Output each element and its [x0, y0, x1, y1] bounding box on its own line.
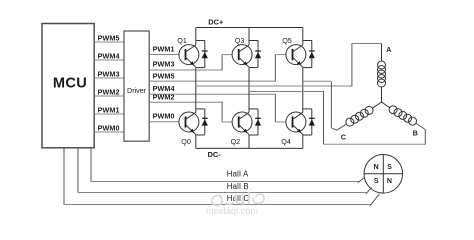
wire PWM4 driver to Q4 base — [149, 84, 286, 122]
svg-text:PWM2: PWM2 — [153, 93, 175, 102]
svg-text:N: N — [387, 178, 392, 185]
svg-text:PWM5: PWM5 — [98, 33, 120, 42]
wire MCU PWM2 to driver — [94, 87, 124, 96]
transistor Q0 — [179, 112, 199, 146]
winding A (phase A coil) — [378, 44, 392, 103]
wire MCU PWM5 to driver — [94, 33, 124, 42]
wire leg 1 phase node vertical (Q1 emitter to Q0 collector) — [195, 68, 197, 113]
svg-text:Driver: Driver — [127, 86, 147, 95]
svg-text:Q4: Q4 — [281, 137, 291, 146]
svg-text:PWM4: PWM4 — [98, 51, 120, 60]
wire leg 3 phase node vertical (Q5 emitter to Q4 collector) — [302, 68, 304, 113]
transistor Q4 — [281, 112, 306, 146]
wire leg 3 collector top (DC+ to Q5) — [302, 28, 304, 46]
svg-text:C: C — [341, 134, 346, 141]
watermark mostaql logo — [212, 189, 264, 206]
wire PWM0 driver to Q0 base — [149, 112, 179, 122]
svg-text:Q5: Q5 — [282, 36, 292, 45]
svg-text:Hall B: Hall B — [227, 182, 249, 191]
winding C (phase C coil) — [341, 102, 382, 141]
svg-text:N: N — [374, 164, 379, 171]
DC- rail — [196, 148, 303, 159]
freewheel diode D3 at Q3 — [249, 41, 261, 68]
svg-text:MCU: MCU — [53, 75, 87, 91]
svg-text:Q3: Q3 — [235, 36, 245, 45]
svg-text:PWM1: PWM1 — [153, 44, 175, 53]
svg-text:PWM5: PWM5 — [153, 72, 175, 81]
freewheel diode D4 at Q4 — [303, 109, 315, 135]
node phase C wire (leg3 to winding C) — [303, 81, 347, 130]
transistor Q2 — [231, 112, 253, 146]
rotor magnet / hall sensor disc — [364, 155, 403, 194]
wire leg 3 emitter bottom (Q4 to DC-) — [302, 135, 304, 148]
svg-text:A: A — [386, 47, 391, 54]
node star point of motor — [381, 101, 383, 103]
wire leg 1 collector top (DC+ to Q1) — [195, 28, 197, 46]
svg-text:PWM3: PWM3 — [153, 60, 175, 69]
wire MCU PWM0 to driver — [94, 123, 124, 132]
svg-text:mostaql.com: mostaql.com — [206, 206, 258, 216]
svg-text:Hall A: Hall A — [227, 170, 249, 179]
svg-text:PWM2: PWM2 — [98, 87, 120, 96]
svg-text:Q2: Q2 — [231, 137, 241, 146]
freewheel diode D0 at Q0 — [196, 109, 208, 135]
wire leg 2 emitter bottom (Q2 to DC-) — [248, 135, 250, 148]
svg-text:S: S — [374, 178, 379, 185]
watermark mostaql.com text — [206, 206, 258, 216]
wire PWM2 driver to Q2 base — [149, 93, 232, 122]
node phase B wire (leg2 to winding B) — [249, 91, 425, 145]
transistor Q1 — [177, 36, 199, 67]
wire PWM3 driver to Q3 base — [149, 55, 232, 71]
DC+ rail — [196, 17, 303, 27]
wire leg 2 phase node vertical (Q3 emitter to Q2 collector) — [248, 68, 250, 113]
transistor Q5 — [282, 36, 306, 67]
wire MCU PWM4 to driver — [94, 51, 124, 60]
node phase A wire (leg1 to winding A) — [196, 44, 382, 87]
wire Hall B (MCU pin to sensor) — [78, 148, 372, 194]
wire PWM1 driver to Q1 base — [149, 44, 179, 54]
svg-text:PWM4: PWM4 — [153, 84, 175, 93]
freewheel diode D1 at Q1 — [196, 41, 208, 68]
wire leg 2 collector top (DC+ to Q3) — [248, 28, 250, 46]
svg-text:Q1: Q1 — [177, 36, 187, 45]
freewheel diode D2 at Q2 — [249, 109, 261, 135]
svg-text:S: S — [387, 164, 392, 171]
freewheel diode D5 at Q5 — [303, 41, 315, 68]
wire leg 1 emitter bottom (Q0 to DC-) — [195, 135, 197, 148]
driver block U2 — [124, 31, 149, 141]
svg-text:Q0: Q0 — [181, 137, 191, 146]
wire MCU PWM1 to driver — [94, 105, 124, 114]
svg-text:B: B — [413, 131, 418, 138]
winding B (phase B coil) — [382, 102, 418, 138]
wire MCU PWM3 to driver — [94, 69, 124, 78]
svg-text:PWM3: PWM3 — [98, 69, 120, 78]
svg-text:PWM0: PWM0 — [153, 112, 175, 121]
wire PWM5 driver to Q5 base — [149, 55, 286, 82]
wire Hall A (MCU pin to sensor) — [91, 148, 365, 183]
svg-text:DC+: DC+ — [208, 17, 224, 26]
svg-text:Hall C: Hall C — [227, 194, 250, 203]
svg-text:PWM0: PWM0 — [98, 123, 120, 132]
transistor Q3 — [232, 36, 252, 67]
MCU block U1 — [42, 24, 94, 148]
wire Hall C (MCU pin to sensor) — [64, 148, 380, 206]
svg-text:DC-: DC- — [208, 150, 222, 159]
svg-text:PWM1: PWM1 — [98, 105, 120, 114]
